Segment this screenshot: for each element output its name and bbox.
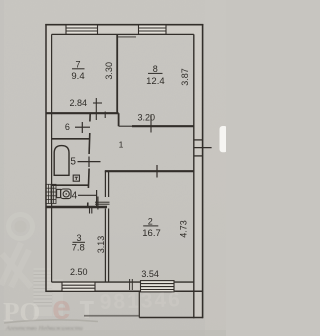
wall: room 7 bottom (2.84 wall) [46, 112, 119, 114]
window W3 room 3 bottom wall [62, 282, 95, 291]
wall: room3/room2 double wall left line [104, 171, 106, 197]
wall: room 5 bottom [52, 184, 89, 186]
svg-text:7.8: 7.8 [72, 243, 85, 254]
entry door opening on right wall [194, 139, 203, 141]
wall: room 8 bottom [132, 125, 194, 127]
svg-text:е: е [52, 289, 71, 327]
window W4 balcony door room 2 bottom wall [141, 281, 175, 292]
small tick at x105 below room7 wall [104, 112, 106, 119]
paper background [0, 0, 226, 336]
wall: room 2 top [105, 170, 194, 172]
balcony outline [138, 292, 140, 318]
watermark underline swoosh [4, 320, 98, 323]
wall: left outer line [45, 24, 47, 292]
door leaf room 6 [75, 126, 90, 128]
watermark logo: second tower [53, 279, 64, 316]
wall: bottom outer line [46, 290, 203, 292]
sink box with T [73, 175, 79, 181]
svg-text:8: 8 [153, 64, 158, 74]
svg-text:4: 4 [72, 190, 78, 201]
svg-text:3.13: 3.13 [96, 236, 106, 254]
svg-text:1: 1 [119, 140, 124, 150]
window W2 room 8 top wall [139, 25, 167, 34]
door leaf room 5 [78, 161, 101, 163]
svg-text:5: 5 [70, 156, 76, 167]
thin line under room 8 top wall [118, 36, 136, 38]
svg-text:4.73: 4.73 [178, 220, 188, 238]
wall: bottom inner line [52, 281, 194, 283]
floor plan drawing [3, 24, 228, 332]
svg-text:3.20: 3.20 [138, 112, 156, 122]
partition between room 7 and room 8 [116, 34, 118, 113]
ventilation shaft grid [46, 184, 56, 203]
svg-text:12.4: 12.4 [146, 76, 165, 87]
svg-text:16.7: 16.7 [142, 228, 161, 239]
door leaf room 4 [78, 194, 97, 196]
dimension tick for 2.84 [95, 98, 97, 120]
wall: room 6 bottom [52, 138, 90, 140]
wall: jog between room7 bottom and room8 bottom [118, 113, 120, 126]
white patch sticker right edge [220, 126, 228, 152]
svg-text:3.30: 3.30 [104, 62, 114, 80]
svg-text:3.87: 3.87 [180, 68, 190, 86]
wall band fills [46, 25, 203, 319]
watermark underline [84, 315, 140, 317]
svg-text:9.4: 9.4 [71, 71, 84, 82]
svg-text:981346: 981346 [99, 288, 182, 314]
wall: room3/room2 double wall right line [108, 171, 110, 197]
junction tick on room2 top wall [156, 165, 158, 178]
wall: bathroom block right (corridor side) [89, 113, 91, 121]
wall: top outer line [45, 24, 203, 26]
watermark logo: hatched tower [34, 268, 53, 316]
svg-text:3.54: 3.54 [141, 269, 159, 279]
watermark text РОСТ [3, 289, 95, 327]
wall: right outer line [202, 24, 204, 318]
svg-text:7: 7 [75, 60, 80, 70]
bathtub [54, 146, 69, 176]
svg-text:2: 2 [148, 217, 153, 227]
svg-text:3: 3 [76, 233, 81, 243]
wall: left inner line [51, 34, 53, 282]
svg-text:Агентство Недвижимости: Агентство Недвижимости [5, 325, 84, 332]
window W1 room 7 top wall [66, 25, 98, 34]
wall: room 4 bottom / room 3 top [46, 206, 107, 208]
room labels and dimensions [65, 60, 190, 280]
svg-text:2.50: 2.50 [70, 267, 88, 277]
door opening room 2 [95, 201, 110, 203]
paper streak texture [205, 0, 226, 336]
toilet tank [57, 189, 61, 197]
toilet bowl [61, 189, 71, 199]
svg-text:2.84: 2.84 [70, 98, 88, 108]
wall: top inner line [52, 33, 194, 35]
dimension ticks for 3.54 [129, 279, 131, 290]
svg-text:6: 6 [65, 122, 70, 132]
door ticks room 3 [89, 207, 91, 214]
wall: right inner line [193, 34, 195, 318]
dimension tick for 3.20 [150, 115, 152, 133]
wall: room 8 bottom thin door part [119, 125, 133, 127]
watermark logo: diagonal ribbon strokes [1, 243, 31, 287]
watermark logo: emblem ring [9, 215, 33, 239]
